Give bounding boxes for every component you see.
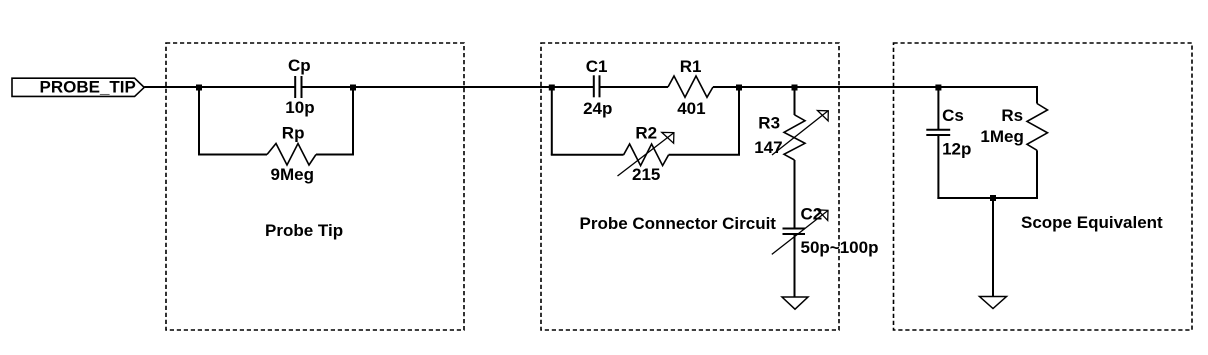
svg-text:Probe Tip: Probe Tip [265,221,343,240]
svg-text:Cs: Cs [942,106,964,125]
net flag PROBE_TIP [12,78,144,96]
wire from flag tip to Cp left plate [144,86,295,88]
capacitor Cs [926,130,950,135]
node junction at connector loop right [736,85,742,91]
node junction at probe tip loop left [196,85,202,91]
wire from R1 to Rs top corner [713,86,1037,88]
svg-text:24p: 24p [583,99,612,118]
svg-text:401: 401 [677,99,705,118]
node junction at R3 top [792,85,798,91]
svg-text:R2: R2 [635,124,657,143]
node junction at Cs top [935,85,941,91]
wire from Cp right plate to C1 left plate [302,86,594,88]
wire scope ground vertical [992,198,994,297]
resistor R2 variable zigzag [624,144,669,166]
wire R3 top [794,87,796,115]
svg-text:Scope Equivalent: Scope Equivalent [1021,213,1163,232]
svg-text:C2: C2 [801,205,823,224]
dashed box Probe Connector Circuit section [541,43,839,330]
svg-text:R3: R3 [758,114,780,133]
wire probe tip loop bottom right [316,154,354,156]
wire connector loop right vertical [738,87,740,155]
wire connector loop left vertical [551,87,553,155]
ground below scope [980,297,1007,309]
node junction at probe tip loop right [350,85,356,91]
wire R3 bottom to C2 [794,160,796,229]
resistor R2 arrow [618,132,674,176]
svg-text:10p: 10p [285,98,314,117]
resistor Rs [1027,104,1048,151]
svg-text:215: 215 [632,165,660,184]
resistor R1 [668,76,713,97]
wire Rs top vertical [1036,86,1038,104]
wire scope bottom rail [937,197,1038,199]
wire probe tip loop bottom left [198,154,267,156]
svg-text:Cp: Cp [288,56,311,75]
resistor R3 variable zigzag [784,115,805,160]
dashed box Probe Tip section [166,43,464,330]
svg-text:50p~100p: 50p~100p [801,238,879,257]
wire connector loop bottom left [551,154,624,156]
svg-text:C1: C1 [586,57,608,76]
wire C2 bottom to ground [794,234,796,297]
wire Rs bottom vertical [1036,150,1038,199]
svg-text:Rp: Rp [282,124,305,143]
resistor Rp [267,144,316,166]
svg-text:Probe Connector Circuit: Probe Connector Circuit [580,214,777,233]
svg-text:12p: 12p [942,140,971,159]
wire connector loop bottom right [669,154,740,156]
resistor R3 arrow [772,111,828,156]
svg-text:1Meg: 1Meg [980,127,1023,146]
svg-text:Rs: Rs [1001,106,1023,125]
wire Cs top vertical [937,87,939,130]
wire Cs bottom vertical [937,135,939,199]
node junction at connector loop left [549,85,555,91]
svg-text:PROBE_TIP: PROBE_TIP [40,78,136,97]
node junction at scope ground [990,195,996,201]
capacitor C1 [594,75,600,97]
wire from C1 right plate to R1 [600,86,669,88]
wire probe tip loop right vertical [352,87,354,155]
capacitor C2 arrow [772,210,828,255]
capacitor Cp [295,76,301,98]
dashed box Scope Equivalent section [894,43,1193,330]
svg-text:R1: R1 [680,57,702,76]
ground below C2 [782,297,808,309]
wire probe tip loop left vertical [198,87,200,155]
svg-text:9Meg: 9Meg [271,165,314,184]
svg-text:147: 147 [754,138,782,157]
capacitor C2 variable plates [783,229,806,235]
